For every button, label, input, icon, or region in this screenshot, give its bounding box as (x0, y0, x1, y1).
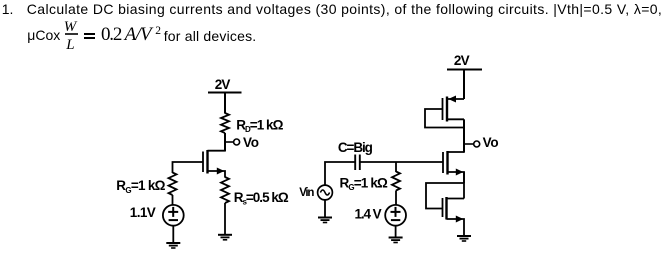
value label RD=1 kOhm (236, 118, 283, 135)
wire Vo tap (left) (225, 141, 234, 143)
wire RG to V1 (172, 195, 174, 205)
source V1 1.1V (battery circle + / -) (163, 205, 184, 226)
resistor RG (right) (392, 172, 400, 191)
ground (below RS) (218, 235, 232, 240)
wire RD to drain of M1 (224, 133, 226, 152)
wire supply to RD (224, 93, 226, 114)
value label 1.1V (130, 205, 156, 220)
value label C=Big (338, 140, 373, 155)
transistor M3 (NMOS, middle right) (443, 151, 464, 183)
wire RG node down (right) (395, 162, 397, 172)
wire M3 source to M4 drain (463, 172, 465, 199)
ground (below V2) (389, 238, 403, 243)
wire RG to V2 (395, 191, 397, 206)
transistor M4 (NMOS diode-connected, bottom right) (443, 197, 465, 236)
svg-text:Rs=0.5 kΩ: Rs=0.5 kΩ (234, 190, 289, 207)
supply rail bar (left) (208, 92, 242, 94)
wire M2 drain down to Vo node (463, 119, 465, 152)
node Vo terminal circle (right) (474, 141, 480, 147)
wire gate M1 to RG (173, 162, 204, 173)
svg-text:1.4 V: 1.4 V (355, 206, 382, 221)
wire V1 to ground (172, 226, 174, 243)
svg-text:2V: 2V (215, 77, 231, 92)
wire RS to ground (224, 203, 226, 235)
supply label 2V (left) (215, 77, 231, 92)
transistor M1 (NMOS, left circuit) (203, 150, 225, 178)
svg-text:2V: 2V (454, 53, 470, 68)
capacitor C=Big (355, 155, 360, 171)
wire Vo tap (right) (464, 143, 474, 145)
svg-text:Vo: Vo (483, 135, 499, 150)
node label Vo (right) (483, 135, 499, 150)
value label Rs=0.5 kOhm (234, 190, 289, 207)
ground (below M4) (457, 236, 471, 241)
source Vin (AC source circle with sine) (318, 185, 333, 200)
node label Vo (left) (243, 135, 259, 150)
svg-text:C=Big: C=Big (338, 140, 373, 155)
transistor M2 (PMOS diode-connected, top right) (443, 96, 465, 122)
node Vo terminal circle (left) (234, 139, 240, 145)
wire capacitor left lead to Vin (325, 162, 355, 185)
wire Vin to ground (324, 200, 326, 218)
value label RG=1 kOhm (right) (340, 176, 388, 193)
value label RG=1 kOhm (left) (116, 178, 165, 195)
value label 1.4 V (355, 206, 382, 221)
resistor RD (221, 113, 229, 133)
supply rail bar (right) (447, 69, 482, 71)
node label Vin (299, 187, 314, 199)
ground (below V1) (166, 243, 180, 248)
wire M2 gate-drain loop (425, 109, 464, 128)
problem statement line 1 (2, 2, 14, 16)
source V2 1.4V (battery circle + / -) (385, 205, 406, 226)
wire gate M3 / RG node / capacitor right lead (360, 161, 443, 163)
supply label 2V (right) (454, 53, 470, 68)
wire V2 to ground (395, 226, 397, 238)
ground (below Vin) (318, 218, 332, 223)
svg-text:Vin: Vin (299, 187, 314, 199)
problem statement line 2: uCox W/L = 0.2 A/V^2 for all devices. (27, 28, 60, 42)
resistor RG (left) (169, 173, 177, 196)
svg-text:1.1V: 1.1V (130, 205, 156, 220)
svg-text:RG=1 kΩ: RG=1 kΩ (116, 178, 165, 195)
svg-text:RD=1 kΩ: RD=1 kΩ (236, 118, 283, 135)
svg-text:RG=1 kΩ: RG=1 kΩ (340, 176, 388, 193)
wire supply to M2 source (463, 70, 465, 100)
resistor RS (221, 177, 229, 203)
wire M4 gate-drain loop (426, 183, 464, 209)
svg-text:Vo: Vo (243, 135, 259, 150)
